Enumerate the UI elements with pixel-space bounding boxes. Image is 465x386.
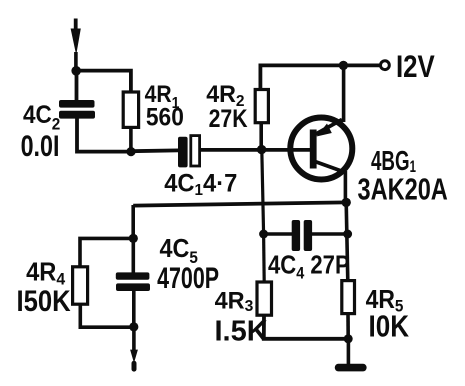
wire C5 bottom to node J (132, 291, 136, 328)
wire collector down to node E (344, 171, 348, 202)
wire node D down to transistor emitter (342, 65, 346, 122)
resistor 4R1 (123, 92, 138, 127)
node G (C4 right junction) (343, 230, 352, 239)
wire node A to C2 top plate (75, 71, 79, 101)
output arrow (bottom) (130, 327, 138, 372)
wire node I left and down to R4 (80, 238, 133, 267)
svg-text:560: 560 (146, 104, 184, 132)
wire node E through node G to R5 (346, 202, 348, 281)
svg-text:3AK20A: 3AK20A (358, 171, 448, 206)
wire R2 top to 12V rail corner (260, 65, 380, 89)
wire C1 right plate to node C (base wire) (200, 148, 311, 152)
label 12V (396, 50, 435, 85)
node F (C4 left junction) (259, 230, 268, 239)
label 4R4 (26, 259, 66, 289)
capacitor 4C2 (59, 100, 95, 119)
wire R3 bottom to bottom row (264, 315, 348, 339)
label 4C5 (160, 235, 198, 267)
transistor 4BG1 (290, 118, 352, 180)
label 0.01 (21, 129, 60, 162)
input arrow (top) (71, 19, 81, 72)
label 4R3 (215, 287, 254, 315)
resistor 4R5 (342, 281, 355, 314)
label 4C4 27P (268, 251, 350, 283)
wire node C up to R2 (259, 123, 263, 150)
node E (collector-row junction) (342, 198, 351, 207)
label 4700P (157, 260, 219, 295)
wire C4 right plate to node G (312, 232, 348, 236)
resistor 4R2 (255, 90, 268, 123)
node I (C5 top junction) (129, 234, 138, 243)
node A (top-left junction) (71, 66, 81, 76)
capacitor 4C1 (178, 136, 200, 168)
svg-text:4C14·7: 4C14·7 (164, 170, 237, 199)
wire node B to C1 left plate (131, 148, 179, 153)
label 4R1 (145, 81, 180, 112)
wire R4 bottom to node J (80, 304, 134, 327)
svg-text:27K: 27K (209, 104, 248, 132)
resistor 4R3 (257, 282, 272, 315)
label 4R2 (206, 82, 245, 110)
wire left column corner down to node I (131, 205, 135, 239)
wire node F to C4 left plate (264, 232, 292, 236)
svg-text:I0K: I0K (369, 309, 410, 344)
supply terminal 12V (381, 61, 390, 70)
node H (ground junction) (344, 334, 353, 343)
wire node I down to C5 (132, 238, 136, 273)
label 560 (146, 104, 184, 132)
node D (supply rail junction) (339, 61, 348, 70)
label 3AK20A (358, 171, 448, 206)
label 4R5 (366, 286, 404, 316)
svg-text:4R3: 4R3 (215, 287, 254, 315)
node B (junction below R1) (126, 147, 135, 156)
label 4C1 4.7 (164, 170, 237, 199)
wire C2 bottom plate down to corner (77, 118, 132, 152)
wire node A right to R1 branch (76, 71, 131, 93)
svg-text:0.0I: 0.0I (21, 129, 60, 162)
wire node C down to node F (262, 150, 264, 234)
label 4BG1 (371, 145, 416, 177)
resistor 4R4 (73, 267, 88, 304)
node C (base junction) (257, 145, 266, 154)
ground (335, 339, 367, 372)
wire R1 bottom to node B (129, 127, 133, 151)
wire long horizontal row to left column (133, 202, 346, 205)
svg-text:I.5K: I.5K (215, 315, 268, 347)
label 4C2 (23, 101, 60, 134)
capacitor 4C5 (116, 272, 150, 291)
svg-text:4700P: 4700P (157, 260, 219, 295)
node J (C5 bottom junction) (129, 322, 138, 331)
label 150K (17, 284, 71, 317)
label 27K (209, 104, 248, 132)
wire R5 bottom to node H (346, 314, 350, 339)
svg-text:I2V: I2V (396, 50, 435, 85)
wire node F down to R3 (262, 234, 266, 283)
svg-text:I50K: I50K (17, 284, 71, 317)
label 1.5K (215, 315, 268, 347)
svg-text:4C4 27P: 4C4 27P (268, 251, 350, 283)
capacitor 4C4 (292, 220, 312, 251)
label 10K (369, 309, 410, 344)
